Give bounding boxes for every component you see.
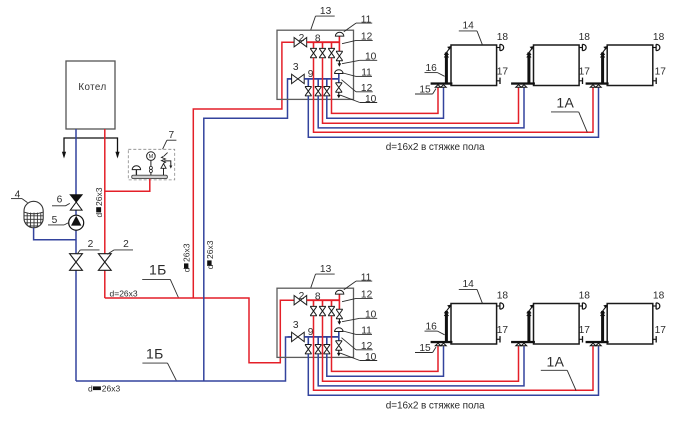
svg-text:Котел: Котел [78, 82, 106, 93]
radiator 14 #2 (floor 1) [534, 45, 580, 86]
svg-text:14: 14 [463, 279, 475, 290]
blue rail end riser (floor 2) [338, 332, 340, 341]
return loop valve 2 (floor 2) [315, 345, 322, 354]
svg-text:18: 18 [579, 291, 591, 302]
svg-text:11: 11 [361, 326, 372, 337]
manifold cabinet box (floor 2) [277, 288, 354, 357]
svg-text:11: 11 [361, 68, 372, 79]
svg-text:3: 3 [293, 320, 299, 331]
svg-text:26x3: 26x3 [182, 243, 192, 262]
svg-text:26x3: 26x3 [205, 240, 215, 259]
svg-text:12: 12 [361, 83, 373, 94]
manifold cabinet box (floor 1) [277, 30, 354, 99]
svg-text:2: 2 [299, 33, 305, 44]
valve 12 (supply drain shut-off) (floor 2) [336, 309, 343, 318]
svg-text:1А: 1А [547, 354, 565, 370]
valve 12 (return drain shut-off) (floor 2) [335, 341, 342, 350]
riser shut-off valve 2 (supply) [98, 254, 111, 271]
supply loop pipe 3 (floor 1) [314, 58, 594, 132]
supply loop valve 1 (floor 1) [310, 48, 317, 57]
air vent 11 (return) (floor 2) [335, 328, 343, 332]
svg-text:17: 17 [655, 66, 667, 77]
expansion tank 4 [24, 201, 43, 228]
blue rail end riser (floor 1) [338, 74, 340, 83]
return loop pipe 2 (floor 1) [318, 88, 524, 128]
supply loop pipe 2 (floor 2) [323, 316, 519, 381]
blue return main [76, 337, 292, 381]
red supply main to lower manifold [105, 298, 294, 363]
boiler [66, 61, 115, 129]
supply tap stub 2 (floor 2) [322, 300, 324, 306]
radiator 14 #1 (floor 2) [451, 304, 497, 345]
svg-text:26x3: 26x3 [94, 187, 104, 206]
blue return branch from upper manifold [204, 79, 292, 381]
drain spout 10 (supply) (floor 2) [338, 319, 340, 322]
svg-text:17: 17 [497, 66, 509, 77]
supply tap stub 2 (floor 1) [322, 42, 324, 48]
supply loop pipe 2 (floor 1) [323, 58, 519, 123]
svg-text:2: 2 [299, 291, 305, 302]
supply loop valve 3 (floor 1) [328, 48, 335, 57]
svg-text:10: 10 [365, 94, 377, 105]
blue return riser from boiler [75, 129, 77, 381]
svg-text:18: 18 [653, 291, 665, 302]
pressure gauge М [147, 152, 156, 161]
valve 12 (supply drain shut-off) (floor 1) [336, 51, 343, 60]
return tap stub 2 (floor 1) [317, 79, 319, 87]
valve 3 return shut-off (floor 1) [292, 74, 305, 83]
svg-text:1А: 1А [556, 95, 574, 111]
return loop pipe 1 (floor 1) [327, 88, 444, 119]
svg-text:11: 11 [361, 272, 372, 283]
supply loop pipe 1 (floor 1) [332, 58, 439, 114]
return tap stub 2 (floor 2) [317, 337, 319, 345]
drain spout 10 (supply) (floor 1) [338, 61, 340, 64]
supply tap stub 1 (floor 1) [313, 42, 315, 48]
supply loop valve 2 (floor 2) [319, 306, 326, 315]
svg-text:6: 6 [57, 195, 63, 206]
check valve 6 [70, 195, 82, 202]
air vent 11 (return) (floor 1) [335, 70, 343, 74]
svg-text:18: 18 [497, 32, 509, 43]
supply loop valve 1 (floor 2) [310, 306, 317, 315]
supply loop valve 3 (floor 2) [328, 306, 335, 315]
svg-text:14: 14 [463, 20, 475, 31]
return loop valve 3 (floor 1) [323, 87, 330, 96]
svg-text:d=16x2 в стяжке пола: d=16x2 в стяжке пола [386, 142, 485, 153]
svg-text:17: 17 [579, 66, 591, 77]
drain spout 10 (return) (floor 1) [338, 92, 340, 95]
valve 12 (return drain shut-off) (floor 1) [335, 83, 342, 92]
svg-text:12: 12 [361, 32, 373, 43]
red supply branch to upper manifold [193, 42, 294, 298]
valve 2 supply shut-off (floor 2) [294, 296, 307, 305]
svg-text:13: 13 [320, 264, 332, 275]
svg-text:8: 8 [315, 34, 321, 45]
svg-text:8: 8 [315, 292, 321, 303]
svg-text:17: 17 [655, 325, 667, 336]
safety valve [163, 168, 165, 175]
return loop pipe 1 (floor 2) [327, 346, 444, 376]
safety group dashed box [128, 149, 174, 180]
blue return rail (floor 1) [304, 78, 339, 80]
svg-text:3: 3 [293, 62, 299, 73]
return tap stub 1 (floor 1) [307, 79, 309, 87]
red supply rail (floor 2) [307, 299, 340, 301]
svg-text:1Б: 1Б [146, 346, 164, 362]
return loop pipe 3 (floor 1) [308, 88, 598, 138]
radiator 14 #3 (floor 2) [607, 304, 653, 345]
valve 2 supply shut-off (floor 1) [294, 38, 307, 47]
svg-text:17: 17 [497, 325, 509, 336]
air vent 11 (supply) (floor 2) [335, 290, 343, 294]
circulation pump 5 [69, 215, 84, 230]
radiator 14 #2 (floor 2) [534, 304, 580, 345]
svg-text:18: 18 [653, 32, 665, 43]
return loop pipe 3 (floor 2) [308, 346, 598, 395]
supply tap stub 3 (floor 2) [331, 300, 333, 306]
svg-text:d=26x3: d=26x3 [110, 289, 138, 299]
svg-text:2: 2 [123, 239, 129, 250]
svg-text:d: d [94, 213, 104, 218]
supply loop pipe 3 (floor 2) [314, 316, 594, 390]
radiator 14 #1 (floor 1) [451, 45, 497, 86]
svg-text:18: 18 [497, 291, 509, 302]
riser shut-off valve 2 (return) [70, 254, 83, 271]
expansion tank connection pipe [34, 228, 76, 240]
supply loop valve 2 (floor 1) [319, 48, 326, 57]
svg-text:1Б: 1Б [149, 261, 167, 277]
air vent 11 (supply) (floor 1) [335, 32, 343, 36]
blue return stub into valve 3 (floor 1) [288, 78, 292, 80]
supply loop pipe 1 (floor 2) [332, 316, 439, 372]
red supply riser from boiler [104, 129, 106, 298]
svg-text:13: 13 [320, 6, 332, 17]
svg-text:7: 7 [168, 130, 174, 141]
drain spout 10 (return) (floor 2) [338, 350, 340, 353]
return loop valve 2 (floor 1) [315, 87, 322, 96]
radiator 14 #3 (floor 1) [607, 45, 653, 86]
svg-text:10: 10 [365, 52, 377, 63]
blue return rail (floor 2) [304, 336, 339, 338]
svg-text:11: 11 [361, 14, 372, 25]
svg-text:12: 12 [361, 290, 373, 301]
flow direction bracket with arrows under boiler [64, 138, 118, 157]
safety group collector bar [132, 175, 168, 178]
air vent on safety group [135, 170, 137, 176]
return loop valve 1 (floor 1) [305, 87, 312, 96]
return tap stub 1 (floor 2) [307, 337, 309, 345]
svg-text:10: 10 [365, 310, 377, 321]
svg-text:18: 18 [579, 32, 591, 43]
return tap stub 3 (floor 2) [326, 337, 328, 345]
red rail end riser (floor 2) [338, 294, 340, 309]
svg-text:2: 2 [88, 239, 94, 250]
return loop valve 3 (floor 2) [323, 345, 330, 354]
svg-text:5: 5 [52, 215, 58, 226]
blue return stub into valve 3 (floor 2) [288, 336, 292, 338]
svg-text:М: М [149, 154, 154, 160]
return loop valve 1 (floor 2) [305, 345, 312, 354]
safety group connection pipe [105, 179, 150, 192]
svg-text:26x3: 26x3 [102, 384, 121, 394]
svg-text:d: d [88, 384, 93, 394]
red supply rail (floor 1) [307, 41, 340, 43]
return tap stub 3 (floor 1) [326, 79, 328, 87]
svg-text:12: 12 [361, 341, 373, 352]
svg-text:17: 17 [579, 325, 591, 336]
red supply stub into valve 2 (floor 1) [293, 41, 296, 43]
red supply stub into valve 2 (floor 2) [293, 299, 296, 301]
supply tap stub 1 (floor 2) [313, 300, 315, 306]
red rail end riser (floor 1) [338, 36, 340, 51]
svg-text:10: 10 [365, 352, 377, 363]
supply tap stub 3 (floor 1) [331, 42, 333, 48]
valve 3 return shut-off (floor 2) [292, 332, 305, 341]
return loop pipe 2 (floor 2) [318, 346, 524, 386]
svg-text:d=16x2 в стяжке пола: d=16x2 в стяжке пола [386, 400, 485, 411]
